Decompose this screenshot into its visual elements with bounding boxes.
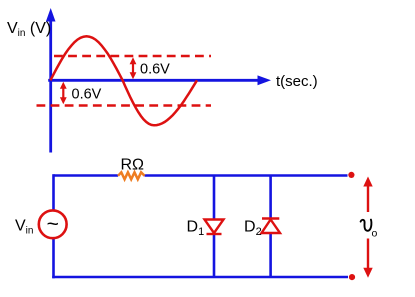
resistor R zigzag	[118, 172, 145, 179]
svg-text:RΩ: RΩ	[121, 157, 145, 174]
wire branch D1 lower	[213, 234, 216, 277]
dashed level +0.6V	[54, 55, 211, 58]
wire branch D2 lower	[269, 233, 272, 277]
svg-text:D1: D1	[187, 219, 205, 239]
wire branch D2 upper	[269, 176, 272, 219]
dimension arrow lower 0.6V	[60, 82, 67, 105]
source Vin circle	[39, 210, 67, 238]
output arrow vo	[363, 177, 372, 278]
label vo (greek upsilon drawn as path)	[361, 220, 378, 240]
svg-text:0.6V: 0.6V	[140, 62, 170, 78]
wire left upper	[52, 174, 55, 211]
wire left lower	[52, 238, 55, 278]
axis t horizontal (x-axis)	[48, 75, 271, 85]
wire bottom	[52, 276, 348, 279]
svg-text:0.6V: 0.6V	[72, 87, 102, 103]
sine wave Vin	[50, 36, 197, 125]
node terminal bottom (red dot)	[349, 274, 355, 280]
wire top right of resistor	[145, 174, 348, 177]
wire top (with gap for resistor)	[54, 174, 119, 177]
svg-text:t(sec.): t(sec.)	[276, 73, 318, 90]
axis Vin vertical (y-axis)	[46, 8, 56, 153]
diode D1 (pointing down)	[205, 220, 224, 235]
diode D2 (pointing up)	[262, 219, 281, 234]
svg-text:D2: D2	[244, 219, 262, 239]
dashed level -0.6V	[37, 104, 212, 107]
svg-text:Vin (V): Vin (V)	[7, 20, 51, 39]
node terminal top (red dot)	[348, 172, 354, 178]
svg-text:Vin: Vin	[15, 218, 33, 237]
wire branch D1 upper	[213, 176, 216, 220]
svg-text:~: ~	[47, 213, 59, 236]
dimension arrow upper 0.6V	[130, 57, 137, 79]
svg-text:o: o	[372, 228, 378, 240]
